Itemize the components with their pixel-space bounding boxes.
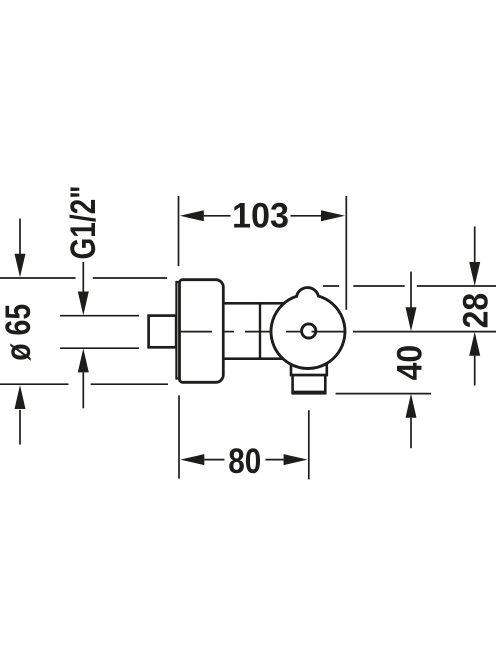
dimension 103 line <box>204 215 321 217</box>
dimension 80 line <box>204 459 283 461</box>
flange plate <box>176 282 179 379</box>
svg-text:103: 103 <box>232 196 289 235</box>
body divider <box>259 303 261 358</box>
spout outlet <box>293 375 326 393</box>
dimension 80 extension lines <box>179 395 309 479</box>
dimension 40 arrows <box>410 272 412 449</box>
escutcheon <box>180 280 224 383</box>
spout opening <box>292 391 326 395</box>
dimension 28 arrows <box>474 226 476 385</box>
svg-text:80: 80 <box>228 442 261 481</box>
handle knob <box>271 288 345 369</box>
centerline <box>180 331 496 333</box>
svg-text:G1/2": G1/2" <box>64 186 103 260</box>
dimension G1/2 arrows <box>82 262 84 408</box>
svg-text:28: 28 <box>457 293 496 329</box>
pipe stub <box>149 316 177 348</box>
dimension 103 extension lines <box>179 196 347 310</box>
handle hub <box>302 324 316 338</box>
svg-text:40: 40 <box>391 345 430 381</box>
dimension 80 arrows <box>180 454 307 465</box>
dimension 28 extension line <box>323 285 496 287</box>
dimension dia65 arrows <box>19 219 21 445</box>
dimension 103 arrows <box>180 210 345 221</box>
dimension 40 extension line <box>336 393 431 395</box>
spout neck <box>291 364 327 375</box>
svg-text:ø 65: ø 65 <box>0 304 38 361</box>
dimension dia65 extension lines <box>0 278 168 384</box>
valve body <box>223 303 292 358</box>
dimension G1/2 extension lines <box>60 316 139 349</box>
